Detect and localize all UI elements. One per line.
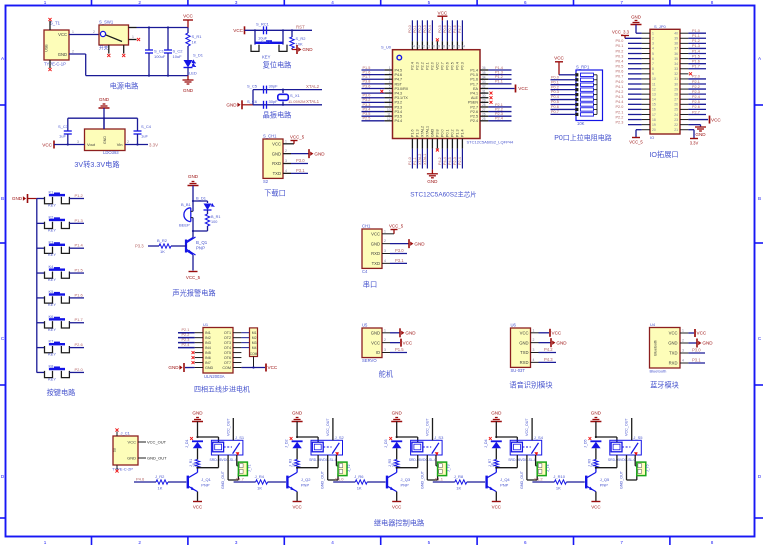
left wire row 9 (362, 106, 385, 108)
svg-text:P2.3: P2.3 (616, 120, 624, 124)
svg-text:P1.4: P1.4 (692, 49, 700, 53)
svg-text:GND_OUT: GND_OUT (321, 470, 325, 489)
svg-text:P1.7: P1.7 (75, 317, 84, 322)
JP pin 8 (642, 68, 650, 70)
svg-text:P2.1: P2.1 (616, 110, 624, 114)
MCU top pin col 10 (456, 41, 458, 50)
relay J_S5 (610, 440, 642, 455)
right wire net P1.4 (688, 53, 706, 55)
pin VCC_OUT (138, 441, 146, 443)
svg-text:P3.8: P3.8 (436, 129, 440, 137)
pin4 RXD net P3.1 (688, 362, 705, 364)
node below resistor (495, 468, 497, 473)
svg-text:P3.4: P3.4 (363, 107, 371, 111)
top wire/net P0.3 (426, 20, 428, 41)
svg-text:1K: 1K (392, 462, 396, 467)
svg-text:P4.3: P4.3 (395, 92, 403, 96)
svg-text:P3.0: P3.0 (692, 348, 701, 353)
JP pin 5 (642, 53, 650, 55)
wire/net P1.1 (488, 83, 511, 85)
svg-text:COM: COM (222, 366, 231, 370)
svg-text:P2.4: P2.4 (470, 119, 478, 123)
svg-text:P2.5: P2.5 (363, 117, 371, 121)
MCU left pin 11 (P3.5) (384, 115, 392, 117)
wire net P2.2 (178, 337, 195, 339)
left wire row 6 (362, 92, 385, 94)
emitter to VCC (595, 492, 597, 501)
svg-text:P0.2: P0.2 (418, 25, 422, 33)
svg-text:P2.4: P2.4 (411, 62, 415, 70)
MCU top pin col 4 (426, 41, 428, 50)
JP pin 29 (680, 88, 688, 90)
svg-text:100: 100 (211, 220, 217, 224)
U1 pin OT5 (233, 352, 241, 354)
svg-text:4: 4 (331, 0, 334, 5)
JP pin 14 (642, 98, 650, 100)
svg-text:TXD: TXD (669, 351, 677, 356)
svg-text:P4.4: P4.4 (616, 100, 624, 104)
RP1 element 4 (575, 88, 578, 91)
svg-text:P1.4: P1.4 (461, 129, 465, 137)
svg-text:J_R4: J_R4 (255, 474, 265, 479)
svg-text:J_D5: J_D5 (583, 439, 587, 448)
MCU bottom pin col 5 (431, 139, 433, 149)
svg-text:Bluetooth: Bluetooth (650, 369, 667, 374)
MCU top pin col 1 (411, 41, 413, 50)
bottom wire/net XTAL1 (426, 149, 428, 169)
svg-text:CH1: CH1 (362, 224, 371, 229)
svg-text:RXD: RXD (520, 360, 529, 365)
pin GND_OUT (138, 457, 146, 459)
left wire net P0.0 (628, 42, 642, 44)
svg-text:P1.3: P1.3 (416, 129, 420, 137)
svg-text:S_D1: S_D1 (193, 53, 204, 58)
svg-text:35: 35 (674, 57, 678, 61)
MCU right pin (P2.7) (480, 106, 488, 108)
svg-text:2: 2 (138, 0, 141, 5)
svg-text:P1.4: P1.4 (495, 66, 503, 70)
transistor J_Q3 PNP (387, 472, 396, 477)
base resistor J_R6 1K (367, 481, 385, 483)
svg-text:P0.6: P0.6 (616, 70, 624, 74)
svg-text:P2.4: P2.4 (182, 343, 190, 347)
svg-text:GND: GND (188, 174, 199, 179)
svg-text:23: 23 (674, 118, 678, 122)
svg-text:P1.3: P1.3 (456, 129, 460, 137)
svg-text:RXD: RXD (371, 251, 380, 256)
wire node to relay coil (596, 436, 617, 438)
wire net P1.3 (69, 222, 84, 224)
MCU right pin (PSEN) (480, 101, 488, 103)
pin2 to GND (382, 243, 390, 245)
node below resistor (595, 468, 597, 473)
svg-text:S_X1: S_X1 (290, 93, 301, 98)
relay J_S4 (510, 440, 542, 455)
MCU bottom pin col 10 (456, 139, 458, 149)
JP pin 19 (642, 124, 650, 126)
svg-text:GND: GND (292, 411, 303, 416)
terminal block J_T4 (537, 462, 546, 476)
svg-text:S_R2: S_R2 (296, 36, 307, 41)
wire/net P1.3 (488, 74, 511, 76)
svg-text:GND: GND (668, 341, 677, 346)
svg-text:GND: GND (702, 341, 713, 346)
key K3 (37, 247, 45, 249)
svg-text:14: 14 (652, 98, 656, 102)
bottom wire/net P4.4 (446, 149, 448, 169)
svg-text:P4.7: P4.7 (236, 477, 245, 482)
svg-text:GND_OUT: GND_OUT (520, 470, 524, 489)
U1 pin OT1 (233, 332, 241, 334)
MCU left pin 6 (P4.3) (384, 92, 392, 94)
U1 pin IN2 (195, 337, 203, 339)
right wire net P2.4 (688, 98, 706, 100)
svg-text:P1.1: P1.1 (435, 477, 444, 482)
svg-text:XTAL1: XTAL1 (426, 126, 430, 137)
svg-text:100uF: 100uF (154, 54, 166, 59)
svg-text:9: 9 (652, 72, 654, 76)
svg-text:30pF: 30pF (269, 99, 279, 104)
svg-text:1: 1 (389, 66, 391, 70)
capacitor S_C4 1uF (137, 118, 139, 131)
resistor S_R1 (187, 28, 189, 34)
pin3 RXD net P3.0 (382, 253, 390, 255)
svg-text:J_T3: J_T3 (447, 464, 451, 472)
svg-text:GND: GND (405, 331, 416, 336)
svg-text:3: 3 (235, 0, 238, 5)
svg-text:9: 9 (389, 103, 391, 107)
key K6 (37, 322, 45, 324)
JP pin 2 (642, 37, 650, 39)
svg-text:2: 2 (533, 338, 535, 342)
svg-text:声光报警电路: 声光报警电路 (172, 289, 215, 298)
top wire/net P0.5 (441, 20, 443, 41)
svg-text:TXD: TXD (273, 171, 281, 176)
svg-text:1K: 1K (357, 486, 362, 491)
svg-text:P0.0: P0.0 (551, 75, 559, 79)
svg-text:IO: IO (650, 135, 654, 140)
resistor S_R2 10K (291, 30, 293, 37)
IO header S_JP0 (650, 29, 680, 134)
pin1 to GND (382, 332, 390, 334)
bottom wire/net P1.0 (411, 149, 413, 169)
svg-text:P0.1: P0.1 (551, 80, 559, 84)
svg-text:40: 40 (431, 45, 435, 49)
svg-text:U1: U1 (203, 322, 209, 327)
svg-text:P1.0: P1.0 (692, 29, 700, 33)
svg-text:P0.4: P0.4 (616, 59, 624, 63)
svg-text:KEY: KEY (48, 277, 56, 282)
svg-text:S_CH1: S_CH1 (263, 134, 277, 139)
svg-text:K6: K6 (49, 314, 55, 319)
pin stub bottom of S_T1 (49, 60, 51, 68)
capacitor S_C1 100uF (148, 28, 150, 51)
wire net P2.4 (178, 347, 195, 349)
svg-text:1: 1 (533, 328, 535, 332)
coil bottom return (317, 455, 319, 468)
svg-text:31: 31 (482, 89, 486, 93)
svg-text:K3: K3 (49, 239, 55, 244)
contact to terminal pin1 (435, 455, 437, 466)
RP1 common rail (596, 75, 598, 115)
U1 pin IN5 (195, 352, 203, 354)
svg-text:OT4: OT4 (224, 346, 231, 350)
svg-text:39: 39 (674, 37, 678, 41)
svg-text:PNP: PNP (301, 483, 310, 488)
bottom wire/net P4.5 (451, 149, 453, 169)
svg-text:P0.0: P0.0 (408, 25, 412, 33)
svg-text:P4.4: P4.4 (443, 157, 447, 165)
wire net P0.5 (551, 104, 576, 106)
svg-text:2: 2 (93, 30, 95, 34)
svg-text:3: 3 (389, 75, 391, 79)
bottom wire/net XTAL2 (421, 149, 423, 169)
coil bottom return (417, 455, 419, 468)
svg-text:36: 36 (451, 45, 455, 49)
svg-text:2: 2 (72, 50, 74, 54)
svg-text:5: 5 (652, 52, 654, 56)
svg-text:USB: USB (45, 44, 49, 52)
svg-text:M3: M3 (252, 341, 257, 345)
svg-text:4: 4 (384, 259, 386, 263)
NO contact to terminal pin2 (327, 455, 329, 480)
svg-text:30: 30 (482, 94, 486, 98)
svg-text:P4.1: P4.1 (616, 85, 624, 89)
wire T1 VCC to switch (69, 34, 99, 36)
svg-text:10K: 10K (577, 121, 585, 126)
svg-text:P1.6: P1.6 (411, 129, 415, 137)
svg-text:P2.3: P2.3 (495, 112, 503, 116)
capacitor S_C6 30pF (263, 101, 265, 109)
right wire net P2.6 (688, 108, 706, 110)
svg-text:J_Q1: J_Q1 (201, 477, 211, 482)
coil bottom return (616, 455, 618, 468)
emitter to VCC (296, 492, 298, 501)
svg-text:开关: 开关 (99, 45, 109, 52)
MCU right pin (P4.1) (480, 92, 488, 94)
MCU right pin (EA) (480, 87, 488, 89)
wire net P1.5 (69, 272, 84, 274)
svg-text:P3.6: P3.6 (363, 84, 371, 88)
svg-text:VCC: VCC (711, 117, 721, 122)
svg-text:3: 3 (235, 540, 238, 545)
svg-text:P4.1: P4.1 (470, 92, 478, 96)
bottom wire/net P4.2 (441, 149, 443, 169)
svg-text:P0口上拉电阻电路: P0口上拉电阻电路 (554, 133, 612, 142)
svg-text:37: 37 (446, 45, 450, 49)
MCU left pin 2 (P4.6) (384, 74, 392, 76)
left wire row 5 (362, 87, 385, 89)
relay J_S3 (411, 440, 443, 455)
svg-text:11: 11 (387, 112, 391, 116)
svg-text:VCC_OUT: VCC_OUT (625, 418, 629, 436)
NO contact to terminal pin2 (526, 455, 528, 480)
svg-text:XTAL2: XTAL2 (306, 84, 320, 89)
svg-text:VCC: VCC (233, 28, 243, 33)
motor connector (M1-M4) (250, 328, 258, 357)
JP pin 6 (642, 58, 650, 60)
left wire net P0.4 (628, 63, 642, 65)
U1 pin COM (233, 366, 241, 368)
JP pin 9 (642, 73, 650, 75)
resistor J_R1 1K (195, 460, 199, 468)
wire net P0.2 (551, 89, 576, 91)
svg-text:P3.0: P3.0 (296, 158, 305, 163)
svg-text:SRD-05VDC-SL-C: SRD-05VDC-SL-C (210, 458, 239, 462)
svg-text:7: 7 (620, 0, 623, 5)
svg-text:B: B (1, 196, 4, 201)
svg-text:VCC_5: VCC_5 (290, 135, 305, 140)
MCU top pin col 6 (436, 41, 438, 50)
svg-text:M2: M2 (252, 336, 257, 340)
svg-text:S_RC1: S_RC1 (256, 22, 270, 27)
svg-text:1: 1 (44, 540, 47, 545)
svg-text:20: 20 (652, 128, 656, 132)
svg-text:P0.2: P0.2 (451, 129, 455, 137)
svg-text:6: 6 (524, 0, 527, 5)
svg-text:P2.3: P2.3 (182, 338, 190, 342)
U1 pin OT2 (233, 337, 241, 339)
svg-text:3: 3 (77, 140, 79, 144)
bottom wire/net P2.4 (461, 149, 463, 169)
U1 pin GND (195, 366, 203, 368)
svg-text:J_S1: J_S1 (235, 435, 245, 440)
JP pin 25 (680, 108, 688, 110)
svg-text:P0.4: P0.4 (551, 95, 559, 99)
svg-text:串口: 串口 (363, 280, 377, 289)
svg-text:29: 29 (674, 87, 678, 91)
svg-text:1K: 1K (257, 486, 262, 491)
wire net P1.7 (69, 322, 84, 324)
svg-text:K2: K2 (49, 214, 55, 219)
svg-text:GND: GND (371, 241, 380, 246)
svg-text:P2.4: P2.4 (692, 95, 700, 99)
svg-text:P0.4: P0.4 (456, 62, 460, 70)
JP pin 40 (680, 32, 688, 34)
svg-text:Vout: Vout (87, 142, 96, 147)
svg-text:IO: IO (376, 350, 381, 355)
wire switch out to VCC rail (137, 27, 189, 29)
left wire net P0.2 (628, 53, 642, 55)
svg-text:21: 21 (674, 128, 678, 132)
svg-text:GND: GND (591, 411, 602, 416)
MCU left pin 12 (P4.4) (384, 120, 392, 122)
svg-text:2: 2 (127, 140, 129, 144)
svg-text:VCC: VCC (272, 141, 281, 146)
svg-text:下载口: 下载口 (264, 189, 286, 198)
RP1 element 6 (575, 98, 578, 101)
wire LDO out to 3.3V (125, 144, 148, 146)
svg-text:P1.2: P1.2 (495, 75, 503, 79)
svg-text:四相五线步进电机: 四相五线步进电机 (194, 385, 250, 394)
svg-text:PNP: PNP (500, 483, 509, 488)
svg-text:P1.2: P1.2 (75, 193, 84, 198)
svg-text:PNP: PNP (201, 483, 210, 488)
wire/net P2.1 (488, 106, 511, 108)
svg-text:2: 2 (285, 149, 287, 153)
pin21 to 3.3V (688, 129, 694, 131)
svg-text:P0.5: P0.5 (438, 25, 442, 33)
left wire net P4.1 (628, 88, 642, 90)
node below resistor (296, 468, 298, 473)
svg-text:S_T1: S_T1 (50, 21, 61, 26)
U1 pin OT6 (233, 357, 241, 359)
diode J_D5 (589, 437, 592, 440)
right wire net P2.0 (688, 78, 706, 80)
svg-text:GND_OUT: GND_OUT (147, 456, 167, 461)
svg-text:J_R8: J_R8 (454, 474, 464, 479)
svg-text:KEY: KEY (262, 55, 271, 60)
svg-text:GND: GND (272, 151, 281, 156)
svg-text:VCC: VCC (292, 505, 301, 510)
svg-text:7: 7 (389, 94, 391, 98)
svg-text:P1.1: P1.1 (692, 34, 700, 38)
MCU top pin col 2 (416, 41, 418, 50)
svg-text:GND: GND (127, 456, 136, 461)
svg-text:13: 13 (652, 92, 656, 96)
svg-text:4: 4 (533, 358, 535, 362)
svg-text:SRD-05VDC-SL-C: SRD-05VDC-SL-C (608, 458, 637, 462)
pin 1 VCC wire (283, 143, 294, 145)
svg-text:J_S2: J_S2 (335, 435, 345, 440)
wire net P0.0 (551, 79, 576, 81)
MCU left pin 5 (P3.0/RX) (384, 87, 392, 89)
MCU left pin 9 (P3.3) (384, 106, 392, 108)
wire node to relay coil (397, 436, 418, 438)
svg-text:VCC: VCC (436, 62, 440, 70)
left wire net P2.1 (628, 113, 642, 115)
JP pin 17 (642, 113, 650, 115)
bluetooth module U4 (650, 328, 681, 369)
svg-text:33: 33 (482, 80, 486, 84)
svg-text:GND: GND (226, 103, 237, 108)
resistor J_R3 1K (295, 460, 299, 468)
left wire row 11 (362, 115, 385, 117)
svg-text:M1: M1 (252, 331, 257, 335)
svg-text:34: 34 (482, 75, 486, 79)
svg-text:P1.3: P1.3 (495, 70, 503, 74)
wire net P2.0 (69, 371, 84, 373)
svg-text:4: 4 (682, 359, 684, 363)
svg-text:S_C5: S_C5 (247, 84, 258, 89)
svg-text:VCC: VCC (371, 340, 380, 345)
switch S_SW1 (99, 25, 129, 45)
svg-text:RST: RST (395, 82, 403, 86)
right wire net P2.3 (688, 93, 706, 95)
svg-text:J_R2: J_R2 (155, 474, 165, 479)
wire diode to resistor (595, 448, 597, 459)
svg-text:6: 6 (652, 57, 654, 61)
svg-text:1: 1 (132, 35, 134, 39)
svg-text:J_D2: J_D2 (285, 439, 289, 448)
pin23 to VCC (688, 119, 708, 121)
JP pin 28 (680, 93, 688, 95)
svg-text:VCC: VCC (697, 331, 707, 336)
U1 pin IN7 (195, 362, 203, 364)
MCU U0 STC12C5A60S2 (393, 50, 481, 139)
ground symbol power circuit (187, 76, 189, 80)
svg-text:1: 1 (384, 229, 386, 233)
JP pin 10 (642, 78, 650, 80)
svg-text:OT2: OT2 (224, 336, 231, 340)
svg-text:P2.2: P2.2 (182, 333, 190, 337)
ground port reset (296, 45, 298, 54)
JP pin 23 (680, 119, 688, 121)
resistor J_R5 1K (395, 460, 399, 468)
RP1 element 7 (575, 103, 578, 106)
svg-text:J_R6: J_R6 (354, 474, 364, 479)
svg-text:P4.6: P4.6 (395, 73, 403, 77)
